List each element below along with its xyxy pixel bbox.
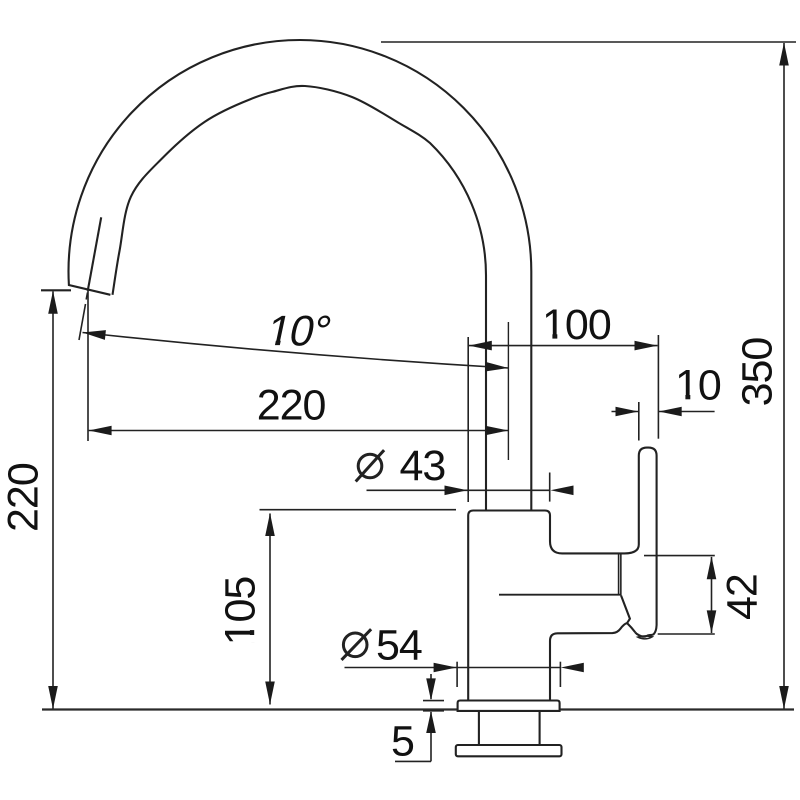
svg-text:43: 43 (400, 442, 446, 490)
dim 5 lower leader line (430, 712, 432, 761)
base stem left (478, 711, 480, 745)
dim 5 horizontal leader (395, 760, 431, 762)
svg-text:220: 220 (257, 381, 326, 429)
svg-text:10: 10 (675, 362, 721, 410)
diameter symbol for 43 (358, 454, 382, 478)
dim 105 vertical line (269, 514, 271, 705)
handle tip end-cap lens (638, 636, 652, 639)
arrowhead 10deg left (83, 330, 106, 340)
dim 220 vertical line (52, 292, 54, 709)
dim 220 horizontal line (89, 430, 509, 432)
arrowhead 5 up (426, 711, 436, 733)
arrowhead 105 down (265, 682, 275, 705)
arrowhead 5 down (426, 678, 436, 700)
dim 42 vertical line (711, 557, 713, 633)
arrowhead 10 right (659, 407, 682, 417)
svg-text:10°: 10° (262, 308, 334, 355)
svg-text:100: 100 (542, 301, 611, 349)
dim 220 top tick (41, 289, 71, 291)
diameter symbol for 54 (343, 633, 367, 657)
arrowhead 100 right (635, 341, 658, 351)
dim 10 right tail (659, 411, 715, 413)
10 degree dimension arc (83, 333, 509, 369)
arrowhead 42 down (707, 610, 717, 633)
valve neck line left (618, 554, 620, 595)
dim 5 lower tick (423, 710, 444, 712)
arrowhead 220h right (485, 426, 508, 436)
body lower-right corner and valve underside (550, 623, 627, 701)
dim 350 top extension line (381, 41, 796, 43)
base flange upper (458, 701, 560, 711)
arrowhead 10deg right (485, 362, 508, 372)
svg-text:350: 350 (734, 338, 782, 407)
pipe-left extension line (467, 337, 469, 502)
arrowhead 220h left (89, 426, 112, 436)
aerator separation line (88, 217, 102, 291)
svg-text:220: 220 (0, 463, 48, 532)
dim 5 upper leader line (430, 674, 432, 699)
dim 42 bottom extension line (658, 633, 715, 635)
faucet spout inner edge (113, 86, 487, 511)
arrowhead 220v down (48, 686, 58, 709)
svg-text:42: 42 (718, 574, 766, 620)
arrowhead 100 left (469, 341, 492, 351)
faucet body and handle lever silhouette (468, 448, 656, 701)
base flange lower (456, 745, 562, 756)
mask foot of digit 1 in label 10 degrees (267, 341, 288, 347)
O54 left extension line (456, 662, 458, 687)
base stem right (539, 711, 541, 745)
body inner horizontal line (499, 594, 621, 596)
dim O54 line (345, 667, 562, 669)
O54 right extension line (559, 662, 561, 687)
dim 42 top extension line (644, 555, 715, 557)
angle reference tick (79, 304, 86, 340)
pipe centerline extension (507, 322, 509, 460)
valve neck line right (620, 554, 622, 595)
mask foot of digit 1 in label 100 (545, 334, 565, 340)
O43 right extension line (549, 473, 551, 502)
svg-text:105: 105 (216, 577, 264, 646)
handle base diagonal with notch (621, 595, 635, 632)
arrowhead 42 up (707, 556, 717, 579)
arrowhead O43 left (445, 486, 468, 496)
arrowhead 220v up (48, 291, 58, 314)
angle reference dash at tip (86, 293, 87, 300)
svg-text:54: 54 (376, 622, 422, 670)
dim O43 line (367, 489, 551, 491)
handle left extension line (638, 402, 640, 441)
faucet spout outer edge with tip cut (69, 40, 532, 511)
mask foot of digit 1 in label 10 (678, 395, 698, 401)
dim 105 top extension line (260, 509, 457, 511)
dim 350 vertical line (783, 43, 785, 709)
mask foot of digit 1 in label 105 (250, 623, 256, 643)
arrowhead O43 right (551, 486, 574, 496)
arrowhead O54 right (561, 663, 584, 673)
dim 5 upper tick (423, 700, 444, 702)
dim 100 line (469, 345, 658, 347)
arrowhead O54 left (434, 663, 457, 673)
dim 10 left tail (612, 411, 639, 413)
arrowhead 10 left (616, 407, 639, 417)
arrowhead 350 up (779, 43, 789, 66)
handle right extension line (657, 335, 659, 439)
countertop baseline (42, 708, 794, 710)
arrowhead 105 up (265, 513, 275, 536)
spout tip extension line (87, 291, 89, 441)
svg-text:5: 5 (391, 717, 414, 765)
arrowhead 350 down (779, 686, 789, 709)
